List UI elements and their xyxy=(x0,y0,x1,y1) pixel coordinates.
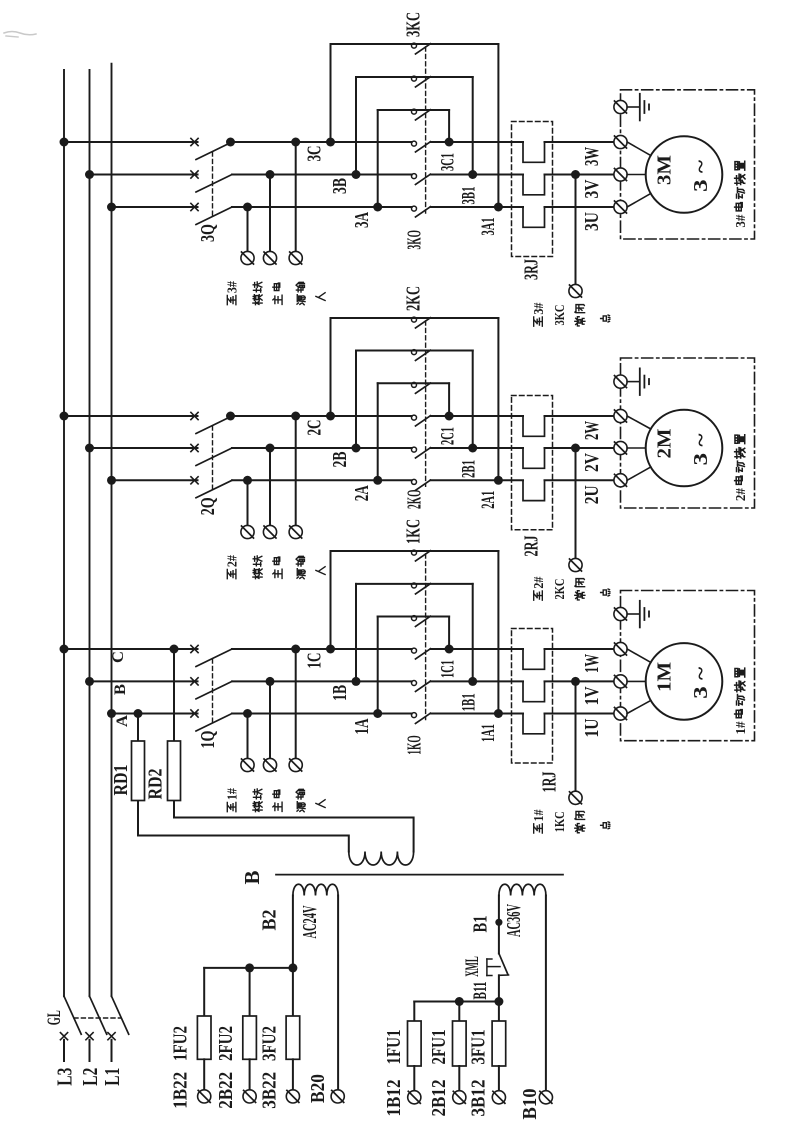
wire 3RJ to motor terminal xyxy=(545,174,614,176)
wire row 1A after disconnect xyxy=(232,713,412,715)
wire feed to fuse 2FU1 xyxy=(458,1002,460,1022)
wire down to module output terminal xyxy=(247,480,249,525)
svg-text:3#: 3# xyxy=(734,215,749,228)
svg-text:1C: 1C xyxy=(305,653,326,669)
terminal 1B12 xyxy=(408,1091,421,1104)
wire RD2 tap down xyxy=(173,649,175,818)
svg-text:3U: 3U xyxy=(581,212,603,231)
wire 1KC bracket C: top run xyxy=(331,550,499,552)
node 3B1 junction xyxy=(468,170,477,179)
transformer B primary coil xyxy=(349,852,414,866)
svg-text:2Q: 2Q xyxy=(197,497,219,515)
terminal motor 3W xyxy=(614,135,627,148)
wire 3RJ to motor terminal xyxy=(545,206,614,208)
label to 1# 1KC normally-closed point (Chinese) xyxy=(532,809,547,833)
wire 3KC bracket C: drop xyxy=(497,44,499,207)
junction on row 2C at blade tip xyxy=(226,412,235,421)
svg-text:3KC: 3KC xyxy=(553,305,568,326)
wire row 2C after disconnect xyxy=(232,415,412,417)
node tap on 2A to module output xyxy=(243,476,252,485)
svg-text:1#: 1# xyxy=(225,788,240,800)
terminal motor 3V xyxy=(614,168,627,181)
fuse 3FU1 xyxy=(492,1021,506,1066)
node 2A bus tap junction xyxy=(107,476,116,485)
svg-text:GL: GL xyxy=(44,1010,65,1025)
wire down to 1KC NC point terminal xyxy=(575,681,577,791)
wire fuse 2FU1 to terminal xyxy=(458,1066,460,1091)
terminal module output phase A xyxy=(241,251,254,264)
disconnect 1Q pole C blade xyxy=(196,649,232,667)
node RD2 tap on row 1C xyxy=(170,645,179,654)
scan artifact xyxy=(4,32,36,38)
motor lead U xyxy=(627,700,651,713)
wire 3KC bracket C: top run xyxy=(331,43,499,45)
svg-text:1KO: 1KO xyxy=(403,735,425,755)
motor 3M circle xyxy=(646,136,723,213)
terminal motor 2V xyxy=(614,441,627,454)
wire row 2C toward 2RJ xyxy=(431,415,524,417)
switch XML actuator bracket xyxy=(487,959,500,976)
svg-text:2KO: 2KO xyxy=(403,489,425,509)
wire 2KC bracket C: drop xyxy=(497,318,499,480)
wire bus to disconnect 2Q pole A xyxy=(112,479,198,481)
node bracket attach on 2B xyxy=(352,444,361,453)
wire 2KC bracket A: riser xyxy=(377,383,379,480)
node 1C1 junction xyxy=(445,645,454,654)
disconnect 3Q pole C blade xyxy=(196,142,232,160)
terminal module output phase C xyxy=(289,525,302,538)
svg-text:B1: B1 xyxy=(469,916,491,933)
svg-text:RD1: RD1 xyxy=(110,765,132,796)
transformer core line B xyxy=(276,874,563,876)
switch GL blade L2 xyxy=(90,996,107,1034)
label 3# motor device (Chinese) xyxy=(734,161,749,227)
wire 1KC bracket B: drop xyxy=(472,584,474,682)
wire fuse 3FU1 to terminal xyxy=(498,1066,500,1091)
thermal relay 1RJ heater element phase B xyxy=(523,681,545,701)
node bracket attach on 1C xyxy=(326,645,335,654)
node tap on 3B to module output xyxy=(266,170,275,179)
disconnect 2Q pole B blade xyxy=(196,448,232,466)
terminal 2KC NC point xyxy=(569,558,582,571)
wire 2KC bracket C: top run xyxy=(331,317,499,319)
svg-text:2V: 2V xyxy=(581,453,603,472)
wire down to module output terminal xyxy=(295,416,297,525)
node tap on 3A to module output xyxy=(243,203,252,212)
junction on row 3C at blade tip xyxy=(226,138,235,147)
svg-text:L3: L3 xyxy=(53,1068,77,1086)
switch GL linkage dashed xyxy=(74,1017,121,1019)
svg-text:2B1: 2B1 xyxy=(459,460,479,478)
fuse RD2 xyxy=(168,741,181,801)
svg-text:2B12: 2B12 xyxy=(428,1080,450,1117)
terminal motor 1W xyxy=(614,642,627,655)
svg-text:1M: 1M xyxy=(653,662,675,692)
node 2C1 junction xyxy=(445,412,454,421)
svg-text:1C1: 1C1 xyxy=(438,660,458,678)
disconnect 1Q pole A blade xyxy=(196,714,232,732)
wire down to module output terminal xyxy=(295,649,297,758)
terminal motor 1V xyxy=(614,675,627,688)
svg-text:B: B xyxy=(240,870,264,884)
wire 3RJ to motor terminal xyxy=(545,141,614,143)
node 1B1 junction xyxy=(468,677,477,686)
terminal module output phase B xyxy=(263,525,276,538)
node 1A bus tap junction xyxy=(107,709,116,718)
switch GL fixed x-mark L1 xyxy=(108,1033,115,1040)
node tap on 2B to module output xyxy=(266,444,275,453)
svg-text:3KO: 3KO xyxy=(403,230,425,250)
switch XML contact tick xyxy=(499,974,508,976)
svg-text:1RJ: 1RJ xyxy=(538,772,560,793)
wire fuse 3FU2 to terminal xyxy=(292,1059,294,1090)
wire B10 lead xyxy=(545,896,547,1091)
node 3FU2 feed xyxy=(288,963,297,972)
node tap on 2V row to 2KC NC point xyxy=(571,444,580,453)
wire AC36V left lead xyxy=(498,896,500,954)
wire bus to disconnect 3Q pole B xyxy=(90,174,198,176)
wire 3KC bracket A: riser xyxy=(377,110,379,207)
node 3C bus tap junction xyxy=(60,138,69,147)
svg-text:3B: 3B xyxy=(330,178,351,194)
wire down to module output terminal xyxy=(269,681,271,758)
wire bus to disconnect 1Q pole B xyxy=(90,680,198,682)
bus L1 xyxy=(111,64,113,997)
wire RD2 to transformer xyxy=(174,818,414,852)
node tap on 3C to module output xyxy=(291,138,300,147)
wire RD1 tap down xyxy=(137,714,139,836)
motor 1M enclosure dash-dot box xyxy=(621,591,755,741)
node B11 xyxy=(494,997,503,1006)
svg-text:3A: 3A xyxy=(352,212,373,228)
node tap on 3V row to 3KC NC point xyxy=(571,170,580,179)
svg-text:1FU2: 1FU2 xyxy=(170,1026,192,1061)
svg-text:3 ~: 3 ~ xyxy=(690,433,712,466)
wire 3KC bracket A: drop xyxy=(448,110,450,142)
terminal motor 2U xyxy=(614,474,627,487)
node bracket attach on 2C xyxy=(326,412,335,421)
wire AC24V feed line xyxy=(204,967,293,969)
svg-text:3FU2: 3FU2 xyxy=(258,1026,280,1061)
svg-text:2#: 2# xyxy=(225,555,240,567)
disconnect 3Q pole B blade xyxy=(196,175,232,193)
svg-text:1B12: 1B12 xyxy=(383,1080,405,1117)
disconnect 2Q linkage dashed xyxy=(212,426,214,489)
wire row 3C after disconnect xyxy=(232,141,412,143)
label to module 2# main power input (Chinese) xyxy=(225,555,240,579)
svg-text:B10: B10 xyxy=(519,1089,541,1120)
svg-text:3 ~: 3 ~ xyxy=(690,666,712,699)
contactor 1KO contact pole B xyxy=(412,681,431,692)
node 2C bus tap junction xyxy=(60,412,69,421)
node tap on 1C to module output xyxy=(291,645,300,654)
contactor 1KC contact pole A xyxy=(412,616,431,627)
motor 1M circle xyxy=(646,643,723,720)
fuse 3FU2 xyxy=(286,1016,300,1059)
node tap on 1A to module output xyxy=(243,709,252,718)
ground symbol xyxy=(640,94,649,121)
node 2B bus tap junction xyxy=(85,444,94,453)
svg-text:1V: 1V xyxy=(581,686,603,705)
wire row 3B toward 3RJ xyxy=(431,174,524,176)
ground symbol xyxy=(640,601,649,628)
node B1 xyxy=(495,919,502,926)
thermal relay 1RJ dashed box xyxy=(512,629,553,764)
thermal relay 1RJ heater element phase C xyxy=(523,649,545,669)
fuse 2FU2 xyxy=(243,1016,257,1059)
disconnect 1Q linkage dashed xyxy=(212,659,214,723)
svg-text:2KC: 2KC xyxy=(402,286,424,311)
wire 3KC bracket C: riser xyxy=(330,44,332,142)
wire 1KC bracket C: drop xyxy=(497,551,499,714)
contactor 3KC linkage dashed xyxy=(425,47,427,213)
disconnect 1Q pole B fixed contact x-mark xyxy=(191,678,198,685)
contactor 1KC contact pole B xyxy=(412,583,431,594)
transformer secondary coil AC36V xyxy=(499,884,546,895)
motor lead V xyxy=(627,447,646,449)
svg-text:1A1: 1A1 xyxy=(479,724,499,742)
node 3A1 junction xyxy=(494,203,503,212)
wire feed to fuse 3FU1 xyxy=(498,1002,500,1022)
wire 2KC bracket A: top run xyxy=(378,382,449,384)
svg-text:3A1: 3A1 xyxy=(479,218,499,236)
thermal relay 1RJ heater element phase A xyxy=(523,714,545,734)
wire feed to fuse 1FU2 xyxy=(203,968,205,1016)
wire 2KC bracket C: riser xyxy=(330,318,332,416)
svg-text:3KC: 3KC xyxy=(402,12,424,37)
wire 2RJ to motor terminal xyxy=(545,479,614,481)
wire 1RJ to motor terminal xyxy=(545,648,614,650)
contactor 3KO contact pole C xyxy=(412,141,431,152)
svg-text:B2: B2 xyxy=(258,910,280,931)
svg-text:AC24V: AC24V xyxy=(299,905,321,938)
disconnect 3Q pole B fixed contact x-mark xyxy=(191,171,198,178)
disconnect 2Q pole A fixed contact x-mark xyxy=(191,477,198,484)
svg-text:1KC: 1KC xyxy=(553,811,568,832)
thermal relay 2RJ heater element phase A xyxy=(523,480,545,500)
terminal module output phase B xyxy=(263,758,276,771)
wire fuse 1FU1 to terminal xyxy=(413,1066,415,1091)
wire 3KC bracket A: top run xyxy=(378,109,449,111)
wire down to module output terminal xyxy=(295,142,297,251)
transformer secondary coil AC24V xyxy=(293,884,338,895)
svg-text:2#: 2# xyxy=(532,577,547,589)
wire 1KC bracket A: riser xyxy=(377,617,379,714)
svg-text:3#: 3# xyxy=(225,281,240,293)
contactor 2KC contact pole B xyxy=(412,350,431,361)
wire down to 3KC NC point terminal xyxy=(575,175,577,285)
wire AC24V left lead xyxy=(292,896,294,968)
switch GL blade L3 xyxy=(64,996,81,1034)
wire bus to disconnect 3Q pole C xyxy=(64,141,198,143)
disconnect 2Q pole A blade xyxy=(196,480,232,498)
disconnect 2Q pole C fixed contact x-mark xyxy=(191,412,198,419)
contactor 3KC contact pole B xyxy=(412,76,431,87)
svg-text:B11: B11 xyxy=(470,982,491,1000)
terminal module output phase B xyxy=(263,251,276,264)
svg-text:2KC: 2KC xyxy=(553,579,568,600)
svg-text:2FU2: 2FU2 xyxy=(215,1026,237,1061)
terminal 1B22 xyxy=(198,1090,211,1103)
wire 1KC bracket A: drop xyxy=(448,617,450,650)
node 3B bus tap junction xyxy=(85,170,94,179)
wire down to module output terminal xyxy=(247,207,249,251)
svg-text:1B22: 1B22 xyxy=(170,1072,192,1109)
thermal relay 3RJ heater element phase B xyxy=(523,175,545,195)
wire 2KC bracket B: drop xyxy=(472,351,474,449)
svg-text:2U: 2U xyxy=(581,485,603,504)
wire row 2B toward 2RJ xyxy=(431,447,524,449)
terminal 3KC NC point xyxy=(569,284,582,297)
wire row 2B after disconnect xyxy=(232,447,412,449)
wire L2 stub xyxy=(89,1040,91,1061)
svg-text:1KC: 1KC xyxy=(402,519,424,544)
contactor 2KC contact pole C xyxy=(412,317,431,328)
bus L3 xyxy=(63,70,65,996)
svg-text:2W: 2W xyxy=(581,421,603,440)
motor lead U xyxy=(627,467,651,480)
wire to ground xyxy=(627,106,640,108)
svg-text:1#: 1# xyxy=(532,809,547,821)
svg-text:3B22: 3B22 xyxy=(258,1072,280,1109)
wire row 1C after disconnect xyxy=(232,648,412,650)
thermal relay 2RJ heater element phase C xyxy=(523,416,545,436)
disconnect 3Q pole C fixed contact x-mark xyxy=(191,138,198,145)
node bracket attach on 1B xyxy=(352,677,361,686)
svg-text:3B12: 3B12 xyxy=(468,1080,490,1117)
svg-text:1B: 1B xyxy=(330,685,351,701)
switch GL fixed x-mark L3 xyxy=(60,1033,67,1040)
motor 2M enclosure dash-dot box xyxy=(621,358,755,508)
svg-text:RD2: RD2 xyxy=(144,769,166,800)
ground symbol xyxy=(640,368,649,395)
node RD1 tap on row 1A xyxy=(134,709,143,718)
svg-text:2B22: 2B22 xyxy=(215,1072,237,1109)
terminal motor earth xyxy=(614,375,627,388)
terminal B10 xyxy=(539,1091,552,1104)
fuse 1FU1 xyxy=(408,1021,422,1066)
svg-text:3C1: 3C1 xyxy=(438,153,458,171)
wire AC24V right lead to B20 xyxy=(337,896,339,1090)
node tap on 1V row to 1KC NC point xyxy=(571,677,580,686)
wire 1RJ to motor terminal xyxy=(545,713,614,715)
wire to ground xyxy=(627,613,640,615)
contactor 3KO contact pole B xyxy=(412,174,431,185)
node bracket attach on 2A xyxy=(373,476,382,485)
wire 2KC bracket A: drop xyxy=(448,383,450,416)
wire row 3A after disconnect xyxy=(232,206,412,208)
wire bus to disconnect 2Q pole C xyxy=(64,415,198,417)
svg-text:1#: 1# xyxy=(734,722,749,735)
disconnect 2Q pole B fixed contact x-mark xyxy=(191,444,198,451)
wire feed to fuse 3FU2 xyxy=(292,968,294,1016)
wire bus to disconnect 3Q pole A xyxy=(112,206,198,208)
wire row 2A toward 2RJ xyxy=(431,479,524,481)
thermal relay 3RJ heater element phase A xyxy=(523,207,545,227)
contactor 1KC linkage dashed xyxy=(425,554,427,720)
wire row 3B after disconnect xyxy=(232,174,412,176)
svg-text:3B1: 3B1 xyxy=(459,187,479,205)
node bracket attach on 3B xyxy=(352,170,361,179)
svg-text:2M: 2M xyxy=(653,428,675,458)
wire 2KC bracket B: top run xyxy=(356,350,473,352)
svg-text:3FU1: 3FU1 xyxy=(468,1030,490,1065)
wire RD1 to transformer xyxy=(138,836,349,852)
motor lead V xyxy=(627,174,646,176)
svg-text:2#: 2# xyxy=(734,488,749,501)
svg-text:2C: 2C xyxy=(305,420,326,436)
contactor 2KC contact pole A xyxy=(412,382,431,393)
svg-text:3RJ: 3RJ xyxy=(520,259,542,280)
wire bus to disconnect 1Q pole A xyxy=(112,713,198,715)
terminal 2B12 xyxy=(453,1091,466,1104)
terminal motor earth xyxy=(614,100,627,113)
wire fuse 1FU2 to terminal xyxy=(203,1059,205,1090)
wire 1KC bracket B: top run xyxy=(356,583,473,585)
svg-text:L2: L2 xyxy=(78,1068,102,1086)
contactor 2KC linkage dashed xyxy=(425,321,427,486)
wire fuse 2FU2 to terminal xyxy=(249,1059,251,1090)
svg-text:L1: L1 xyxy=(100,1068,124,1086)
thermal relay 3RJ dashed box xyxy=(512,122,553,257)
disconnect 1Q pole B blade xyxy=(196,681,232,699)
node bracket attach on 3C xyxy=(326,138,335,147)
svg-text:1A: 1A xyxy=(352,719,373,735)
terminal module output phase A xyxy=(241,758,254,771)
fuse 2FU1 xyxy=(453,1021,467,1066)
terminal 2B22 xyxy=(243,1090,256,1103)
node 3A bus tap junction xyxy=(107,203,116,212)
disconnect 3Q linkage dashed xyxy=(212,152,214,216)
label 1# motor device (Chinese) xyxy=(734,668,749,734)
svg-text:B: B xyxy=(112,684,129,695)
wire row 2A after disconnect xyxy=(232,479,412,481)
contactor 1KC contact pole C xyxy=(412,550,431,561)
svg-text:1FU1: 1FU1 xyxy=(383,1030,405,1065)
wire row 1B toward 1RJ xyxy=(431,680,524,682)
contactor 3KC contact pole C xyxy=(412,43,431,54)
wire to ground xyxy=(627,381,640,383)
contactor 3KC contact pole A xyxy=(412,109,431,120)
svg-text:3 ~: 3 ~ xyxy=(690,159,712,192)
disconnect 1Q pole C fixed contact x-mark xyxy=(191,645,198,652)
terminal motor earth xyxy=(614,607,627,620)
terminal B20 xyxy=(331,1090,344,1103)
wire row 3C toward 3RJ xyxy=(431,141,524,143)
thermal relay 3RJ heater element phase C xyxy=(523,142,545,162)
svg-text:2RJ: 2RJ xyxy=(520,536,542,557)
terminal motor 2W xyxy=(614,409,627,422)
terminal 3B12 xyxy=(492,1091,505,1104)
wire down to module output terminal xyxy=(247,714,249,759)
wire down to module output terminal xyxy=(269,175,271,252)
wire 2RJ to motor terminal xyxy=(545,415,614,417)
node 1A1 junction xyxy=(494,709,503,718)
wire 3KC bracket B: drop xyxy=(472,77,474,175)
terminal module output phase C xyxy=(289,758,302,771)
bus L2 xyxy=(89,70,91,996)
disconnect 3Q pole A fixed contact x-mark xyxy=(191,203,198,210)
thermal relay 2RJ heater element phase B xyxy=(523,448,545,468)
node 1C bus tap junction xyxy=(60,645,69,654)
svg-text:3W: 3W xyxy=(581,147,603,166)
motor lead U xyxy=(627,194,651,208)
terminal module output phase C xyxy=(289,251,302,264)
wire L3 stub xyxy=(63,1040,65,1061)
node bracket attach on 3A xyxy=(373,203,382,212)
contactor 2KO contact pole A xyxy=(412,479,431,490)
svg-text:2B: 2B xyxy=(330,452,351,468)
